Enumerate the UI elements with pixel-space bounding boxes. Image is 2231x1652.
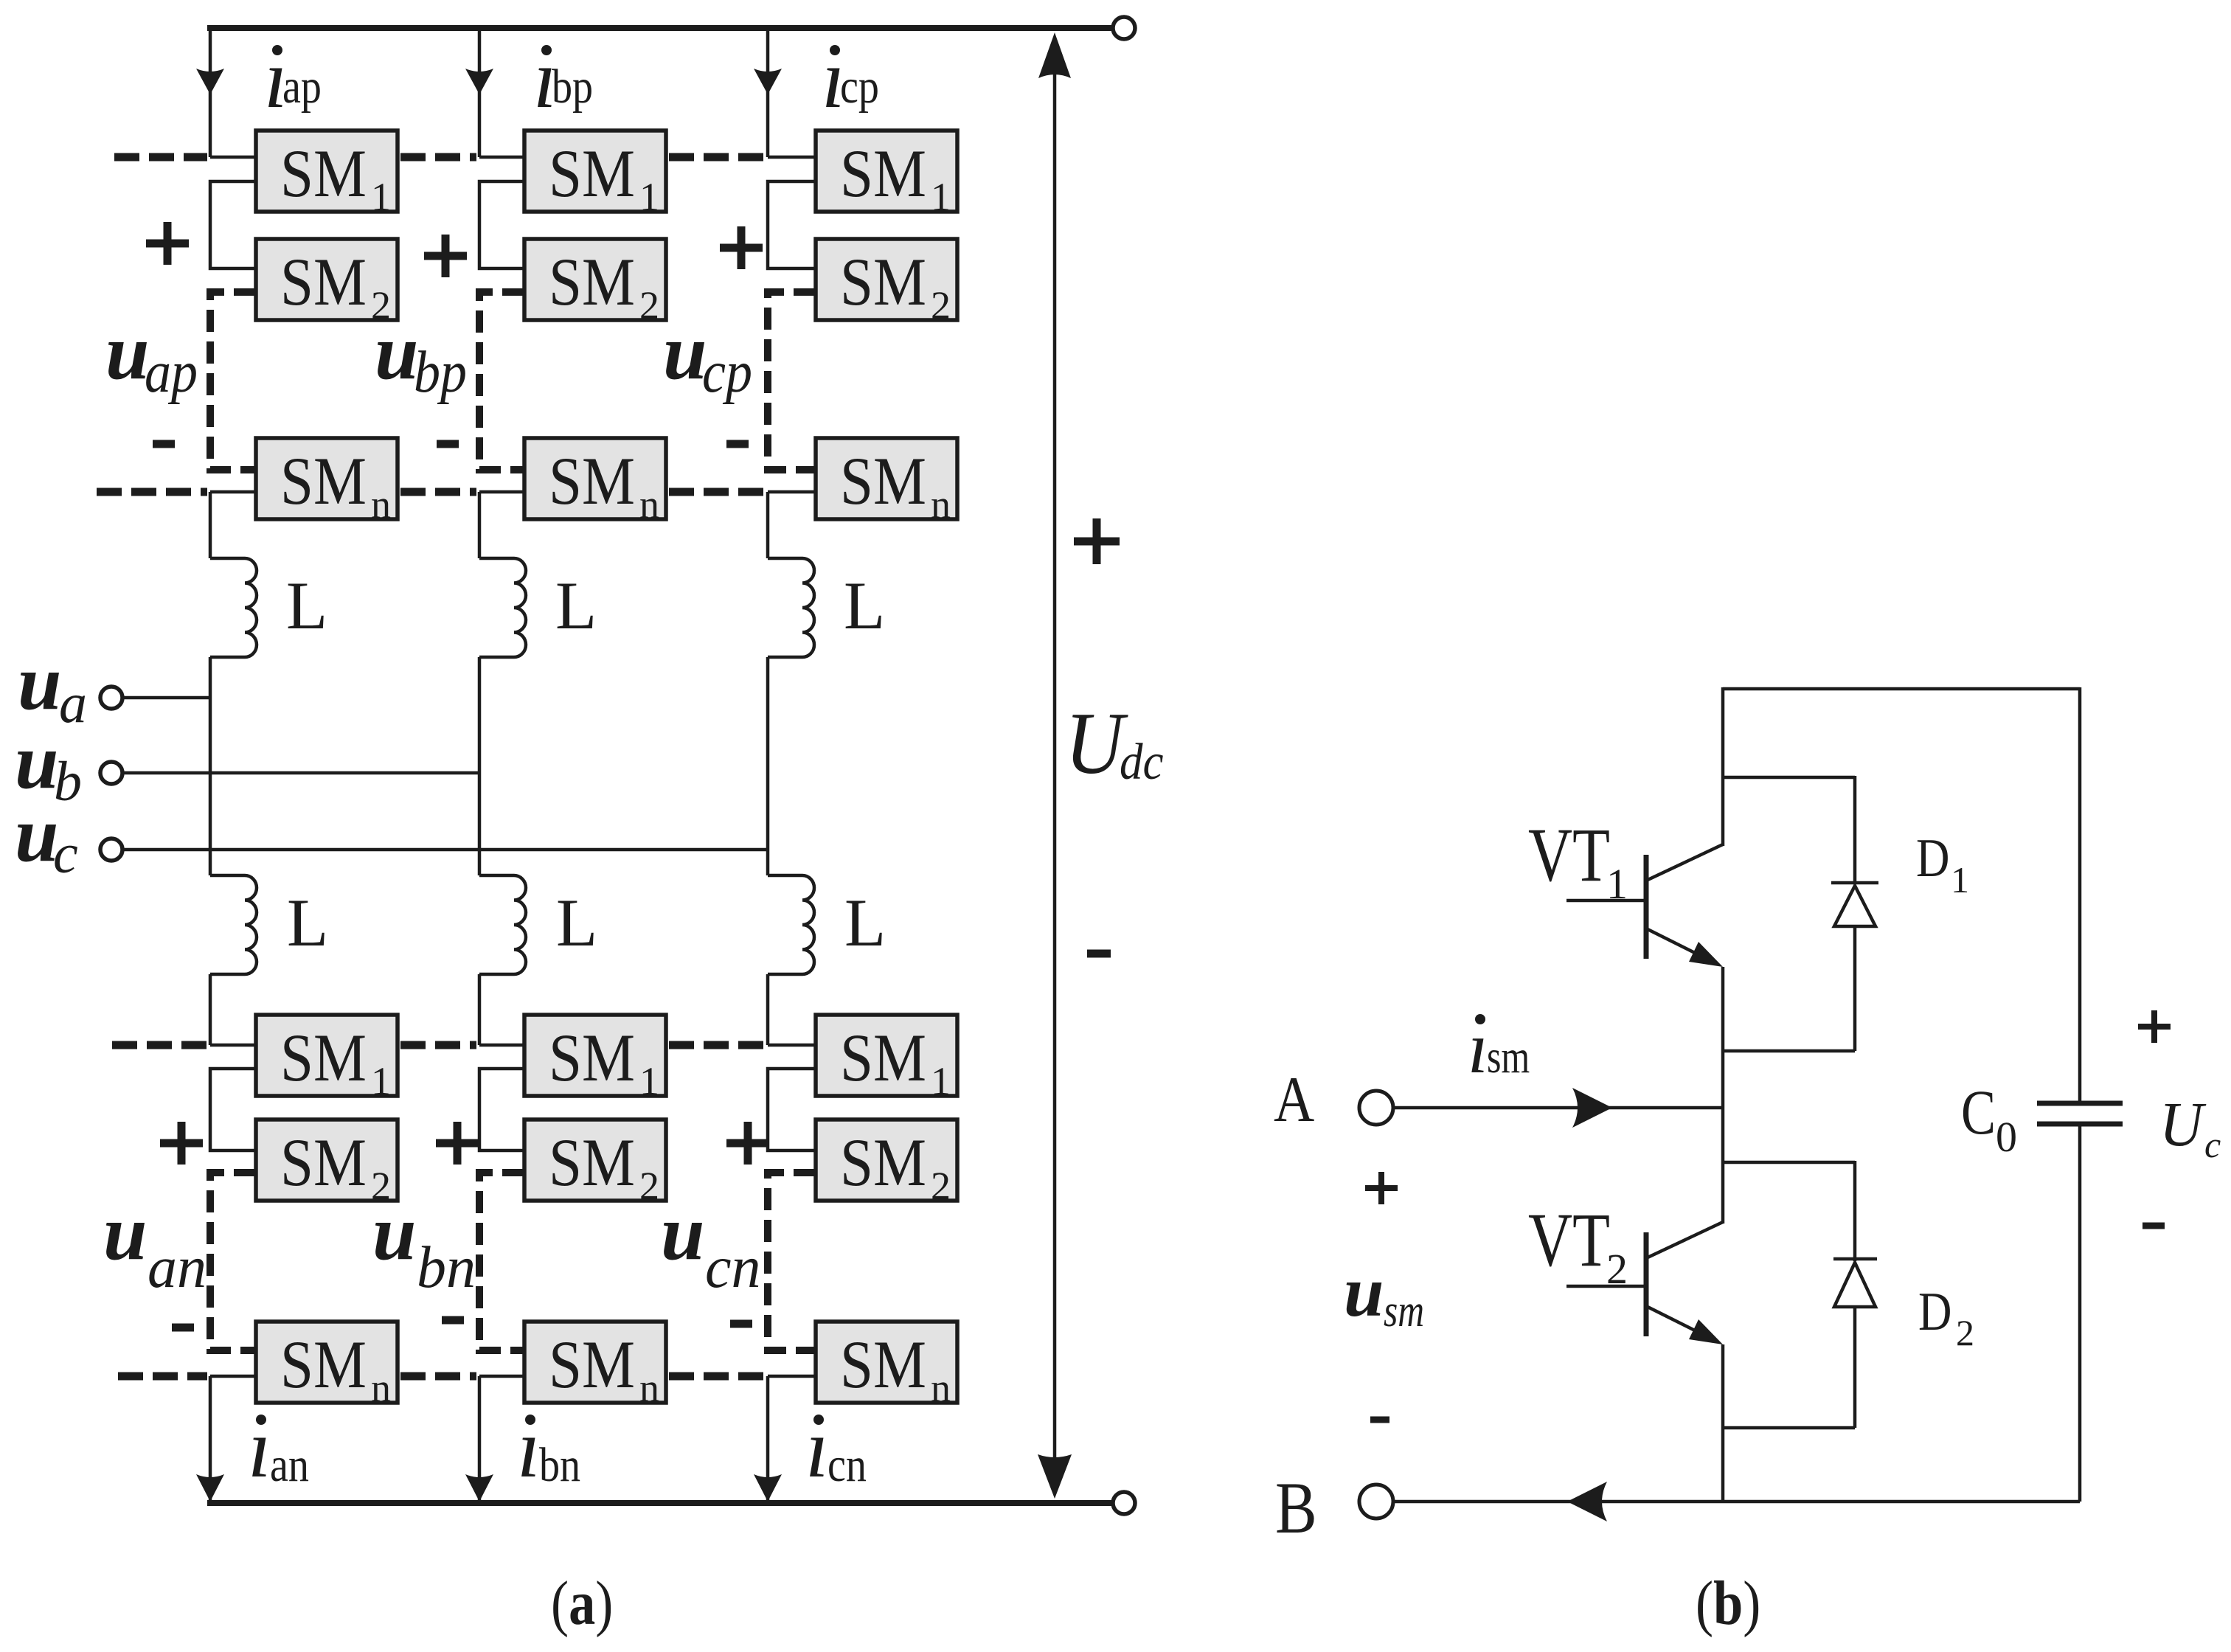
svg-text:2: 2 [931, 1164, 951, 1208]
svg-text:L: L [556, 885, 597, 960]
label ucp minus [726, 440, 749, 448]
diode D2 [1853, 1161, 1857, 1261]
label ucn plus [726, 1139, 769, 1148]
wire SM1 to SM2 upper phase b [479, 181, 524, 268]
svg-text:c: c [2204, 1124, 2221, 1165]
diode D2 branch top wire [1723, 1161, 1855, 1165]
arrowhead ism return at B [1567, 1482, 1607, 1521]
label usm plus [1365, 1185, 1398, 1191]
svg-text:an: an [148, 1235, 207, 1300]
arrowhead arm current icn [754, 1474, 782, 1502]
wire phase a lower arm to DC- bus [209, 1376, 212, 1500]
svg-text:SM: SM [549, 1327, 635, 1402]
wire AC phase a [122, 696, 210, 700]
wire inductor to SM1 lower phase c [766, 974, 770, 1045]
wire VT2 emitter to B rail [1721, 1344, 1725, 1502]
svg-text:bp: bp [552, 60, 593, 114]
wire dash-dot arm continuation line y=667 [669, 488, 765, 496]
svg-text:c: c [53, 823, 78, 885]
submodule SM2 upper arm phase c [816, 239, 957, 320]
svg-text:SM: SM [840, 1327, 926, 1402]
wire dash-dot arm continuation line y=667 [97, 488, 207, 496]
wire SMn to inductor upper phase c [766, 492, 770, 558]
svg-text:2: 2 [1606, 1245, 1628, 1293]
wire SMn upper phase b bottom port [479, 490, 524, 494]
diode D1 branch top wire [1723, 776, 1855, 780]
inductor L upper arm phase c [768, 558, 814, 657]
label VT1 [1528, 813, 1610, 898]
label uap plus [146, 240, 189, 248]
svg-text:n: n [931, 1366, 951, 1410]
label A [1274, 1063, 1314, 1135]
wire dashed SM2 to SMn upper phase a [210, 292, 256, 470]
wire dashed SM2 to SMn lower phase a [210, 1173, 256, 1350]
svg-text:SM: SM [549, 244, 635, 319]
wire submodule top bus (b) [1723, 687, 2080, 691]
wire phase b upper arm from DC+ bus [478, 25, 482, 157]
svg-text:u: u [105, 309, 150, 396]
svg-text:SM: SM [280, 1125, 367, 1200]
wire dash-dot arm continuation line y=1417 [400, 1041, 476, 1049]
submodule SM2 upper arm phase a [256, 239, 398, 320]
wire to SM1 upper phase b top port [479, 156, 524, 159]
svg-text:an: an [270, 1438, 309, 1492]
svg-text:C: C [1961, 1078, 1996, 1148]
wire dash-dot arm continuation line y=213 [669, 153, 765, 162]
submodule SM2 lower arm phase c [816, 1120, 957, 1201]
wire SMn lower phase b bottom port [479, 1375, 524, 1378]
svg-text:SM: SM [549, 1020, 635, 1095]
wire dash-dot arm continuation line y=1866 [669, 1372, 765, 1381]
wire A input (b) [1393, 1106, 1723, 1110]
diode D1 [1853, 776, 1857, 884]
label ubp minus [437, 440, 459, 448]
svg-text:n: n [931, 482, 951, 527]
label uan plus [160, 1139, 203, 1148]
svg-text:1: 1 [371, 175, 391, 219]
wire D2 branch bottom [1723, 1426, 1855, 1430]
svg-text:SM: SM [280, 1327, 367, 1402]
svg-text:B: B [1275, 1468, 1317, 1549]
svg-text:SM: SM [280, 244, 367, 319]
svg-text:(b): (b) [1696, 1569, 1760, 1639]
wire phase b lower arm to DC- bus [478, 1376, 482, 1500]
label Uc minus [2142, 1223, 2165, 1229]
node DC- terminal [1113, 1492, 1135, 1514]
wire phase c AC node vertical [766, 657, 770, 875]
label Udc [1065, 694, 1128, 792]
svg-text:cp: cp [840, 60, 879, 114]
wire dash-dot arm continuation line y=667 [400, 488, 476, 496]
label ucp plus [720, 244, 763, 252]
arrowhead arm current ibn [465, 1474, 493, 1502]
svg-text:u: u [661, 1190, 705, 1277]
svg-text:1: 1 [1606, 860, 1628, 908]
svg-text:u: u [663, 309, 707, 396]
wire dash-dot arm continuation line y=1417 [669, 1041, 765, 1049]
wire phase a upper arm from DC+ bus [209, 25, 212, 157]
label caption (a) [551, 1569, 613, 1639]
label uap minus [153, 440, 175, 448]
wire dashed SM2 to SMn lower phase c [768, 1173, 816, 1350]
svg-text:0: 0 [1996, 1113, 2017, 1161]
svg-text:1: 1 [639, 175, 659, 219]
submodule SM1 lower arm phase a [256, 1015, 398, 1096]
node terminal A [1359, 1091, 1393, 1125]
svg-text:D: D [1918, 1281, 1951, 1342]
svg-text:SM: SM [840, 1020, 926, 1095]
svg-text:cp: cp [702, 340, 752, 405]
inductor L upper arm phase a [210, 558, 257, 657]
svg-text:VT: VT [1528, 1198, 1610, 1283]
submodule SMn lower arm phase b [524, 1322, 666, 1403]
svg-text:ap: ap [282, 60, 322, 114]
svg-text:2: 2 [639, 1164, 659, 1208]
wire capacitor branch lower (b) [2078, 1124, 2082, 1502]
svg-text:sm: sm [1384, 1286, 1424, 1336]
svg-text:u: u [103, 1190, 148, 1277]
wire dash-dot arm continuation line y=1417 [112, 1041, 207, 1049]
svg-text:1: 1 [931, 175, 951, 219]
submodule SMn upper arm phase a [256, 438, 398, 519]
Udc arrowhead down [1038, 1454, 1072, 1499]
wire VT1 emitter to A node [1721, 967, 1725, 1108]
inductor L lower arm phase a [210, 875, 257, 974]
wire SMn upper phase a bottom port [210, 490, 256, 494]
wire AC phase c [122, 848, 768, 852]
label VT2 [1528, 1198, 1610, 1283]
label C0 [1961, 1078, 1996, 1148]
node terminal B [1359, 1485, 1393, 1519]
svg-text:n: n [371, 1366, 391, 1410]
svg-text:L: L [844, 885, 886, 960]
svg-text:cn: cn [705, 1235, 761, 1300]
submodule SM2 lower arm phase a [256, 1120, 398, 1201]
svg-text:ap: ap [145, 340, 198, 405]
wire phase c upper arm from DC+ bus [766, 25, 770, 157]
arrowhead ism [1572, 1088, 1612, 1128]
label ucn minus [730, 1320, 752, 1328]
wire dash-dot arm continuation line y=213 [114, 153, 207, 162]
submodule SM1 upper arm phase a [256, 131, 398, 212]
wire bottom DC bus (negative rail) [207, 1500, 1112, 1506]
svg-text:u: u [15, 791, 59, 878]
wire D1 branch bottom [1723, 1049, 1855, 1053]
svg-text:L: L [287, 885, 328, 960]
svg-text:VT: VT [1528, 813, 1610, 898]
transistor VT1 [1644, 855, 1649, 959]
submodule SM1 lower arm phase b [524, 1015, 666, 1096]
svg-text:u: u [375, 309, 419, 396]
label Uc [2159, 1089, 2207, 1159]
svg-text:sm: sm [1487, 1031, 1530, 1083]
svg-text:SM: SM [840, 136, 926, 211]
node AC terminal ub [100, 762, 122, 784]
wire dash-dot arm continuation line y=1866 [118, 1372, 207, 1381]
submodule SMn upper arm phase c [816, 438, 957, 519]
label Uc plus [2138, 1024, 2171, 1030]
wire SM1 to SM2 lower phase b [479, 1069, 524, 1150]
svg-text:SM: SM [549, 1125, 635, 1200]
submodule SMn upper arm phase b [524, 438, 666, 519]
svg-text:n: n [639, 482, 659, 527]
svg-text:1: 1 [639, 1059, 659, 1103]
capacitor C0 [2037, 1101, 2123, 1106]
wire B rail (b) [1393, 1500, 2080, 1504]
arrowhead arm current icp [754, 69, 782, 94]
wire VT1 collector vertical (b) [1721, 687, 1725, 846]
svg-text:1: 1 [371, 1059, 391, 1103]
svg-text:2: 2 [639, 283, 659, 327]
label caption (b) [1696, 1569, 1760, 1639]
submodule SM1 upper arm phase b [524, 131, 666, 212]
wire SM1 to SM2 upper phase c [768, 181, 816, 268]
wire SMn to inductor upper phase b [478, 492, 482, 558]
wire phase b AC node vertical [478, 657, 482, 875]
arrowhead arm current iap [196, 69, 224, 94]
arrowhead arm current ian [196, 1474, 224, 1502]
inductor L upper arm phase b [479, 558, 526, 657]
wire A node to VT2 collector [1721, 1108, 1725, 1224]
svg-text:u: u [372, 1190, 417, 1277]
svg-text:bn: bn [417, 1235, 476, 1300]
Udc arrowhead up [1038, 32, 1071, 78]
node AC terminal uc [100, 839, 122, 861]
wire inductor to SM1 lower phase b [478, 974, 482, 1045]
svg-text:SM: SM [280, 1020, 367, 1095]
svg-text:1: 1 [931, 1059, 951, 1103]
wire dashed SM2 to SMn lower phase b [479, 1173, 524, 1350]
wire dash-dot arm continuation line y=1866 [400, 1372, 476, 1381]
node DC+ terminal [1113, 17, 1135, 39]
label B [1275, 1468, 1317, 1549]
svg-text:SM: SM [280, 443, 367, 518]
svg-text:L: L [286, 568, 327, 643]
submodule SMn lower arm phase a [256, 1322, 398, 1403]
label Udc plus [1074, 538, 1120, 546]
wire AC phase b [122, 771, 479, 775]
svg-text:2: 2 [1956, 1312, 1974, 1353]
node AC terminal ua [100, 687, 122, 709]
svg-text:SM: SM [840, 244, 926, 319]
svg-text:bn: bn [539, 1438, 580, 1492]
svg-text:n: n [639, 1366, 659, 1410]
wire to SM1 upper phase a top port [210, 156, 256, 159]
wire SM1 to SM2 lower phase a [210, 1069, 256, 1150]
arrowhead arm current ibp [465, 69, 493, 94]
svg-text:n: n [371, 482, 391, 527]
wire dashed SM2 to SMn upper phase c [768, 292, 816, 470]
svg-text:1: 1 [1951, 859, 1969, 900]
svg-text:2: 2 [931, 283, 951, 327]
svg-text:L: L [555, 568, 597, 643]
svg-text:U: U [2159, 1089, 2207, 1159]
wire to SM1 upper phase c top port [768, 156, 816, 159]
inductor L lower arm phase c [768, 875, 814, 974]
label D2 [1918, 1281, 1951, 1342]
label Udc minus [1087, 950, 1111, 958]
svg-text:SM: SM [840, 443, 926, 518]
wire SM1 to SM2 upper phase a [210, 181, 256, 268]
wire inductor to SM1 lower phase a [209, 974, 212, 1045]
label uan minus [172, 1324, 194, 1332]
svg-text:cn: cn [827, 1438, 867, 1492]
submodule SM2 lower arm phase b [524, 1120, 666, 1201]
svg-text:u: u [18, 639, 62, 726]
label ubn minus [442, 1316, 464, 1325]
wire SMn upper phase c bottom port [768, 490, 816, 494]
label usm minus [1370, 1417, 1389, 1423]
svg-text:L: L [844, 568, 885, 643]
submodule SM1 lower arm phase c [816, 1015, 957, 1096]
svg-text:SM: SM [549, 136, 635, 211]
svg-text:u: u [1344, 1252, 1384, 1332]
wire capacitor branch upper (b) [2078, 687, 2082, 1103]
wire SMn to inductor upper phase a [209, 492, 212, 558]
wire phase c lower arm to DC- bus [766, 1376, 770, 1500]
wire phase a AC node vertical [209, 657, 212, 875]
svg-text:bp: bp [414, 340, 467, 405]
label ubn plus [436, 1139, 479, 1148]
wire dash-dot arm continuation line y=213 [400, 153, 476, 162]
submodule SMn lower arm phase c [816, 1322, 957, 1403]
svg-text:(a): (a) [551, 1569, 613, 1639]
inductor L lower arm phase b [479, 875, 526, 974]
svg-text:SM: SM [840, 1125, 926, 1200]
svg-text:dc: dc [1120, 734, 1163, 791]
wire SMn lower phase c bottom port [768, 1375, 816, 1378]
svg-text:D: D [1916, 827, 1949, 888]
submodule SM2 upper arm phase b [524, 239, 666, 320]
svg-text:A: A [1274, 1063, 1314, 1135]
submodule SM1 upper arm phase c [816, 131, 957, 212]
wire dashed SM2 to SMn upper phase b [479, 292, 524, 470]
wire SM1 to SM2 lower phase c [768, 1069, 816, 1150]
svg-text:a: a [59, 673, 87, 735]
wire top DC bus (positive rail) [207, 25, 1112, 31]
label ubp plus [424, 252, 467, 260]
transistor VT2 [1644, 1232, 1649, 1336]
svg-text:SM: SM [549, 443, 635, 518]
svg-text:SM: SM [280, 136, 367, 211]
label D1 [1916, 827, 1949, 888]
wire SMn lower phase a bottom port [210, 1375, 256, 1378]
wire Udc measurement line [1053, 74, 1057, 1457]
